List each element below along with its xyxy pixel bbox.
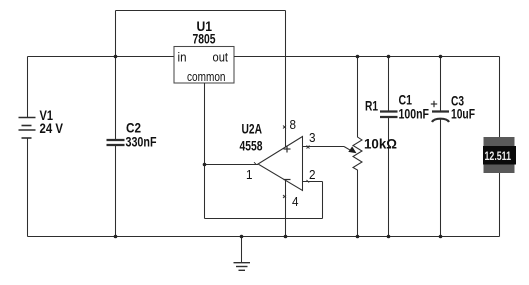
capacitor C2 xyxy=(107,140,125,145)
wire U1 common drop xyxy=(204,83,206,165)
wire C3 bottom lead xyxy=(440,120,442,237)
svg-text:10kΩ: 10kΩ xyxy=(364,136,397,152)
junction out rail C3 xyxy=(439,55,443,59)
ground xyxy=(234,263,251,271)
svg-text:4: 4 xyxy=(292,194,299,209)
wire feedback bottom xyxy=(205,218,323,220)
svg-text:out: out xyxy=(213,50,229,65)
op-amp minus input mark xyxy=(284,179,291,181)
svg-text:U2A: U2A xyxy=(242,120,263,136)
junction ground rail R1 xyxy=(356,235,360,239)
svg-text:10uF: 10uF xyxy=(451,106,475,122)
wire battery bottom lead xyxy=(27,138,29,237)
svg-text:100nF: 100nF xyxy=(399,106,430,122)
capacitor C1 top lead xyxy=(388,57,390,112)
capacitor C1 xyxy=(380,112,398,118)
C3 plus polarity mark xyxy=(431,101,437,107)
pin2 tick xyxy=(307,180,310,183)
voltmeter probe body xyxy=(484,137,515,173)
wire C1 bottom lead xyxy=(388,117,390,237)
junction ground rail C1 xyxy=(387,235,391,239)
wire input rail 24V xyxy=(28,56,175,58)
svg-text:2: 2 xyxy=(309,167,316,182)
wire op-amp pin4 ground drop xyxy=(285,180,287,237)
capacitor C3 top lead xyxy=(440,57,442,112)
wire C2 top lead from top rail xyxy=(115,11,117,140)
svg-text:in: in xyxy=(178,50,187,65)
svg-text:common: common xyxy=(187,69,226,84)
pin8 tick xyxy=(283,126,286,129)
wire feedback left vertical xyxy=(204,165,206,219)
svg-text:7805: 7805 xyxy=(193,30,216,46)
svg-text:8: 8 xyxy=(290,117,297,132)
junction ground rail C2 xyxy=(114,235,118,239)
svg-text:4558: 4558 xyxy=(240,138,263,154)
junction ground rail C3 xyxy=(439,235,443,239)
resistor R1 zigzag xyxy=(353,57,362,237)
wire noninverting input pin3 xyxy=(303,146,345,148)
wire battery top lead xyxy=(27,57,29,118)
wire voltmeter top drop xyxy=(499,57,501,138)
svg-text:12.511: 12.511 xyxy=(485,149,512,163)
pin1 tick xyxy=(254,162,256,164)
svg-text:R1: R1 xyxy=(365,98,378,114)
potentiometer wiper arrow xyxy=(348,146,356,153)
wire output rail 5V+ xyxy=(234,56,500,58)
junction common-output node xyxy=(203,163,207,167)
junction ground rail ground xyxy=(240,235,244,239)
junction input-C2 node xyxy=(114,55,118,59)
pin3 tick xyxy=(307,146,310,149)
wire ground drop xyxy=(241,237,243,263)
junction out rail C1 xyxy=(387,55,391,59)
svg-text:24 V: 24 V xyxy=(40,120,64,136)
pin4 tick xyxy=(283,195,286,198)
wire top rail xyxy=(116,10,286,12)
wire wiper diagonal xyxy=(344,147,351,151)
wire C2 bottom lead xyxy=(115,145,117,237)
battery V1 xyxy=(19,118,36,139)
wire op-amp output pin1 xyxy=(205,164,259,166)
wire feedback right vertical xyxy=(322,182,324,219)
regulator U1 box xyxy=(174,47,234,84)
voltmeter display window xyxy=(483,146,516,165)
wire ground rail xyxy=(28,236,500,238)
op-amp plus input mark xyxy=(284,146,291,153)
capacitor C3 polarized xyxy=(432,112,449,123)
junction ground rail pin4 xyxy=(284,235,288,239)
svg-text:3: 3 xyxy=(309,130,316,145)
junction out rail R1 xyxy=(356,55,360,59)
op-amp U2A xyxy=(258,137,303,191)
wire inverting input pin2 xyxy=(303,181,323,183)
wire op-amp pin8 supply drop xyxy=(285,11,287,148)
svg-text:1: 1 xyxy=(246,167,253,182)
svg-text:330nF: 330nF xyxy=(126,134,157,150)
wire voltmeter bottom lead xyxy=(499,173,501,237)
